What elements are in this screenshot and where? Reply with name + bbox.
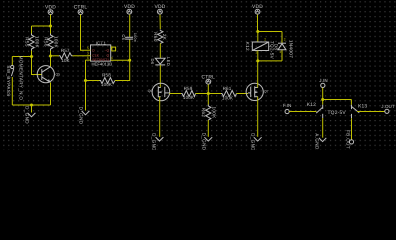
svg-text:R59: R59: [184, 86, 193, 91]
svg-text:D6: D6: [150, 59, 155, 65]
transistor Q6 (n-mosfet, gate right): [148, 83, 170, 101]
svg-text:1: 1: [279, 50, 281, 54]
wire VDD to C6 top: [129, 15, 131, 38]
svg-text:~Q: ~Q: [104, 49, 109, 53]
junction VDD rail: [49, 25, 52, 28]
svg-text:10K: 10K: [61, 58, 70, 63]
wire VDD rail to R55/R56 tops: [32, 25, 51, 27]
svg-text:2K: 2K: [162, 34, 167, 41]
svg-text:R62: R62: [201, 108, 206, 118]
svg-text:Q5: Q5: [56, 73, 61, 77]
transistor Q5: [37, 66, 60, 83]
svg-text:J.OUT: J.OUT: [381, 104, 395, 109]
relay coil K12: [245, 41, 274, 60]
wire VDD to R60: [159, 15, 161, 29]
junction bottom rail: [30, 104, 33, 107]
wire gnd stub: [31, 105, 33, 113]
svg-text:1N4007: 1N4007: [289, 40, 294, 58]
no-connect square on Q output: [112, 47, 116, 51]
power symbol CTRL (top): [74, 5, 88, 15]
wire K13 bottom throw to FB.OUT: [351, 118, 353, 140]
pin 4 stub (RST): [111, 59, 130, 61]
power symbol VDD (left): [45, 5, 56, 15]
wire CTRL stub to node and R62: [207, 84, 209, 104]
wire Q7 source to gnd: [257, 97, 259, 137]
svg-text:R55: R55: [25, 37, 30, 47]
port F.IN: [283, 103, 291, 114]
wire R55 top stub: [31, 26, 33, 34]
wire R62 to gnd: [207, 120, 209, 137]
svg-text:FB.OUT: FB.OUT: [345, 130, 350, 149]
ground D_GND (under R62): [201, 133, 212, 151]
wire collector node down to Q5: [50, 56, 52, 67]
wire coil top stub: [257, 32, 259, 43]
wire R59 to CTRL node: [196, 93, 222, 95]
resistor R55: [25, 34, 40, 51]
wire K13 top throw stub: [350, 100, 352, 105]
junction switch rail: [30, 55, 33, 58]
svg-text:5: 5: [87, 46, 89, 50]
pin 6 stub (SET): [86, 59, 91, 61]
wire VDD rail to diode: [258, 31, 282, 33]
ground A.GND: [315, 133, 327, 150]
wire CTRL to D pin: [81, 15, 88, 51]
wire Q6 gate to R59: [165, 92, 170, 94]
wire Q7 drain up: [257, 61, 259, 88]
svg-text:2: 2: [284, 37, 286, 41]
pin 1 stub (~Q): [111, 47, 112, 49]
svg-text:100K: 100K: [222, 96, 234, 101]
svg-text:2: 2: [264, 37, 266, 41]
wire bottom rail to diode: [258, 60, 282, 62]
wire R60 to LED: [159, 43, 161, 58]
svg-text:100K: 100K: [212, 106, 217, 119]
resistor R57: [59, 48, 73, 63]
svg-text:D_GND: D_GND: [25, 106, 30, 124]
wire R55 bottom to switch rail: [31, 51, 33, 57]
svg-text:J.IN: J.IN: [319, 78, 327, 83]
wire C6 bottom to RST net: [129, 39, 131, 60]
junction collector node: [49, 55, 52, 58]
junction J.IN rail: [321, 98, 324, 101]
svg-text:100K: 100K: [35, 36, 40, 49]
svg-text:R57: R57: [61, 48, 70, 53]
wire Q6 source to gnd: [159, 97, 161, 137]
wire J.IN rail right: [323, 99, 352, 101]
svg-text:4: 4: [111, 56, 113, 60]
svg-text:1: 1: [255, 50, 257, 54]
wire down to Q5 base: [32, 57, 42, 75]
power symbol CTRL (mid): [202, 75, 216, 85]
svg-text:3: 3: [87, 52, 89, 56]
wire R57 to CLK pin: [73, 55, 88, 57]
svg-text:Q7: Q7: [264, 90, 269, 94]
svg-text:R60: R60: [153, 32, 158, 42]
wire R61 to Q7 gate: [237, 93, 249, 95]
ground D_GND (under Q7): [251, 133, 262, 151]
svg-text:D_GND: D_GND: [79, 107, 84, 125]
wire Q5 emitter down: [50, 83, 52, 106]
resistor R61: [221, 86, 237, 101]
svg-text:100K: 100K: [183, 95, 195, 100]
resistor R58: [100, 73, 116, 88]
ground D_GND (under IC): [79, 107, 90, 125]
wire R56 top stub: [50, 26, 52, 34]
port J.IN: [319, 78, 327, 88]
ground D_GND (left): [25, 106, 36, 124]
svg-text:CLK: CLK: [92, 53, 99, 57]
svg-text:K12: K12: [307, 102, 316, 108]
pin 3 stub (CLK): [88, 55, 91, 57]
resistor R62: [201, 105, 217, 121]
wire R56 bottom to collector node: [50, 51, 52, 57]
svg-text:100n: 100n: [133, 33, 137, 42]
diode D8: [274, 40, 294, 58]
svg-text:SW_BYPASS: SW_BYPASS: [6, 65, 11, 96]
wire VDD stub left: [50, 15, 52, 27]
junction SET/R58: [84, 79, 87, 82]
relay contact K13: [352, 104, 368, 119]
svg-text:R58: R58: [102, 73, 111, 78]
svg-text:K13: K13: [358, 104, 367, 110]
svg-text:100K: 100K: [54, 36, 59, 49]
power symbol VDD (x129): [124, 4, 135, 14]
wire diode top stub: [281, 32, 283, 44]
resistor R59: [181, 86, 195, 100]
wire R58 to RST net: [115, 60, 130, 80]
junction CTRL node: [207, 92, 210, 95]
svg-text:Q6: Q6: [148, 89, 153, 93]
svg-text:A.GND: A.GND: [315, 133, 320, 150]
relay contact K12: [307, 102, 323, 118]
svg-text:LED: LED: [166, 57, 171, 66]
svg-text:TQ2-5V: TQ2-5V: [328, 110, 347, 116]
svg-text:F.IN: F.IN: [283, 103, 291, 108]
port FB.OUT: [345, 130, 353, 149]
svg-text:R56: R56: [44, 37, 49, 47]
switch SW_BYPASS: [6, 56, 23, 105]
wire SET node to R58: [86, 80, 100, 82]
ground D_GND (under Q6): [151, 133, 163, 151]
svg-text:100K: 100K: [101, 82, 113, 87]
wire VDD down to coil rail: [257, 15, 259, 32]
junction VDD rail right: [256, 30, 259, 33]
op-amp IC7.1 flip-flop box: [91, 40, 113, 66]
resistor R56: [44, 34, 59, 51]
wire J.IN down: [322, 88, 324, 105]
svg-text:R61: R61: [223, 86, 232, 91]
power symbol VDD (x257): [252, 4, 263, 14]
junction coil bottom rail: [256, 59, 259, 62]
pin 5 stub (D): [88, 49, 91, 51]
svg-text:D_GND: D_GND: [251, 133, 256, 150]
power symbol VDD (x160): [155, 4, 166, 14]
wire K12 bottom throw to A.GND: [322, 118, 324, 138]
svg-text:K12: K12: [245, 42, 250, 51]
svg-text:HEF4013B: HEF4013B: [92, 61, 113, 66]
capacitor C6: [121, 33, 137, 42]
wire LED to Q6 drain: [159, 65, 161, 88]
LED D6: [150, 57, 171, 66]
svg-text:C6: C6: [121, 34, 126, 40]
wire switch top rail: [12, 56, 31, 58]
svg-text:TQ2-5V: TQ2-5V: [269, 41, 274, 60]
svg-text:D_GND: D_GND: [151, 133, 156, 150]
transistor Q7 (n-mosfet, gate left): [246, 83, 269, 100]
svg-text:MOMENTARY_N.O: MOMENTARY_N.O: [19, 56, 24, 101]
resistor R60 (LED): [153, 30, 167, 44]
wire SET net down: [85, 60, 87, 110]
svg-text:6: 6: [87, 56, 89, 60]
svg-text:D_GND: D_GND: [201, 133, 206, 150]
svg-text:D8: D8: [274, 44, 279, 51]
wire coil bottom stub: [257, 51, 259, 61]
wire F.IN to contact K12: [289, 111, 316, 113]
svg-text:Q: Q: [106, 53, 109, 57]
wire collector node to R57: [51, 55, 60, 57]
junction RST net: [128, 59, 131, 62]
wire K13 common to J.OUT: [357, 111, 385, 113]
port J.OUT: [381, 104, 395, 113]
wire bottom rail: [12, 104, 50, 106]
wire diode bottom stub: [281, 50, 283, 61]
